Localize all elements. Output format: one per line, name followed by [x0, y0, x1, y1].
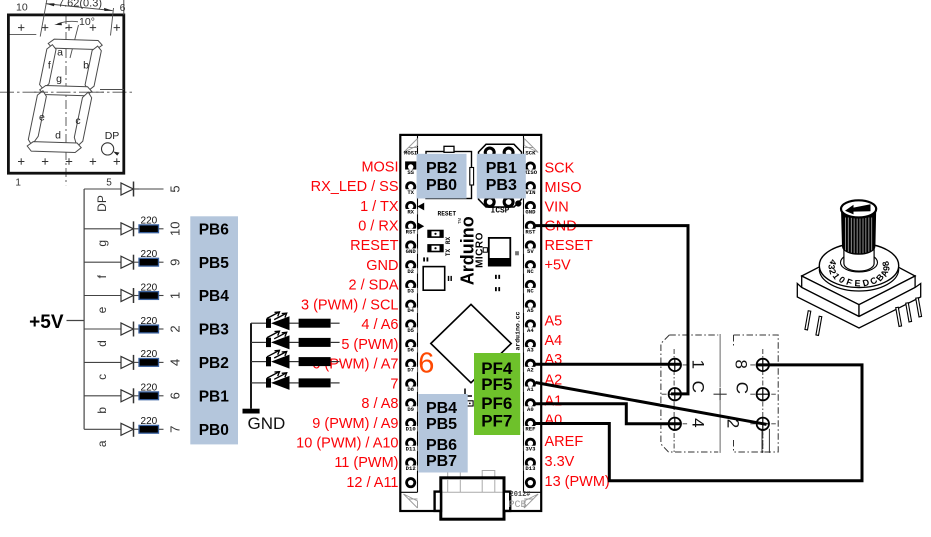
- svg-text:PB6: PB6: [199, 221, 230, 238]
- svg-text:GND: GND: [406, 248, 417, 255]
- svg-text:3.3V: 3.3V: [545, 454, 575, 470]
- svg-text:7: 7: [390, 376, 398, 392]
- svg-text:+5V: +5V: [545, 258, 572, 274]
- svg-text:220: 220: [141, 349, 158, 360]
- svg-text:PB1: PB1: [486, 160, 517, 177]
- svg-text:RESET: RESET: [350, 238, 398, 254]
- svg-text:D13: D13: [525, 465, 536, 472]
- svg-text:PF5: PF5: [481, 375, 512, 394]
- svg-text:PB0: PB0: [199, 422, 229, 439]
- svg-text:PCB: PCB: [509, 500, 527, 511]
- svg-text:DP: DP: [95, 195, 109, 212]
- svg-text:7: 7: [168, 426, 183, 433]
- svg-text:PF6: PF6: [481, 394, 512, 413]
- svg-text:RX_LED / SS: RX_LED / SS: [311, 179, 399, 195]
- svg-text:PB5: PB5: [199, 255, 230, 272]
- svg-text:D3: D3: [407, 288, 414, 295]
- svg-text:10 (PWM) / A10: 10 (PWM) / A10: [296, 436, 398, 452]
- svg-text:3V3: 3V3: [525, 445, 536, 452]
- svg-text:arduino.cc: arduino.cc: [515, 311, 522, 350]
- svg-text:a: a: [95, 440, 109, 447]
- svg-text:8: 8: [732, 359, 751, 368]
- svg-text:7.62(0.3): 7.62(0.3): [58, 0, 102, 9]
- svg-text:ICSP: ICSP: [491, 208, 510, 216]
- svg-text:220: 220: [141, 282, 158, 293]
- svg-text:b: b: [95, 407, 109, 414]
- svg-text:e: e: [95, 306, 109, 313]
- svg-text:4 / A6: 4 / A6: [361, 317, 398, 333]
- svg-text:1 / TX: 1 / TX: [360, 199, 399, 215]
- svg-text:6: 6: [120, 2, 126, 14]
- svg-text:C: C: [689, 381, 708, 393]
- svg-text:GND: GND: [525, 209, 536, 216]
- svg-text:220: 220: [141, 216, 158, 227]
- svg-text:5V: 5V: [527, 248, 534, 255]
- svg-text:1: 1: [15, 178, 21, 189]
- svg-text:c: c: [75, 115, 80, 127]
- svg-text:5: 5: [168, 185, 183, 192]
- svg-text:VIN: VIN: [545, 200, 569, 216]
- svg-text:PB5: PB5: [426, 416, 457, 433]
- svg-text:PB1: PB1: [199, 388, 230, 405]
- svg-text:VIN: VIN: [525, 189, 535, 196]
- svg-text:MISO: MISO: [545, 180, 582, 196]
- svg-text:220: 220: [141, 316, 158, 327]
- svg-text:D12: D12: [406, 465, 417, 472]
- svg-text:f: f: [48, 59, 51, 71]
- svg-text:A1: A1: [527, 386, 534, 393]
- svg-text:SS: SS: [407, 169, 414, 176]
- svg-text:b: b: [83, 60, 89, 72]
- svg-text:PB4: PB4: [426, 400, 457, 417]
- svg-text:A0: A0: [545, 412, 563, 428]
- svg-text:RST: RST: [525, 228, 536, 235]
- svg-text:2012#: 2012#: [510, 491, 531, 499]
- svg-text:A3: A3: [527, 347, 534, 354]
- svg-text:NC: NC: [527, 288, 534, 295]
- svg-text:1: 1: [689, 360, 708, 369]
- svg-text:0 / RX: 0 / RX: [358, 219, 399, 235]
- svg-text:6: 6: [418, 347, 434, 379]
- svg-text:PF7: PF7: [481, 412, 512, 431]
- svg-text:10: 10: [16, 2, 28, 14]
- svg-text:MICRO: MICRO: [474, 232, 485, 268]
- svg-text:5 (PWM): 5 (PWM): [341, 337, 398, 353]
- svg-text:2: 2: [168, 325, 183, 332]
- svg-text:D5: D5: [407, 327, 414, 334]
- svg-text:A1: A1: [545, 394, 563, 410]
- svg-text:PB3: PB3: [199, 322, 230, 339]
- svg-text:6: 6: [168, 392, 183, 399]
- svg-text:+5V: +5V: [29, 312, 64, 333]
- svg-text:RX: RX: [445, 237, 452, 245]
- svg-text:d: d: [55, 130, 61, 142]
- svg-text:E: E: [854, 278, 861, 288]
- svg-text:A2: A2: [527, 366, 534, 373]
- svg-text:DP: DP: [105, 130, 120, 142]
- svg-text:RST: RST: [406, 228, 417, 235]
- svg-text:RESET: RESET: [438, 211, 457, 218]
- svg-text:AREF: AREF: [545, 434, 584, 450]
- svg-text:D9: D9: [407, 406, 414, 413]
- svg-text:11 (PWM): 11 (PWM): [334, 455, 398, 471]
- svg-text:SCK: SCK: [545, 160, 575, 176]
- svg-text:e: e: [39, 112, 45, 124]
- svg-text:MOSI: MOSI: [361, 159, 398, 175]
- svg-text:NC: NC: [527, 268, 534, 275]
- svg-text:A5: A5: [545, 313, 563, 329]
- svg-text:PB6: PB6: [426, 437, 457, 454]
- svg-text:D10: D10: [406, 426, 417, 433]
- svg-text:12 / A11: 12 / A11: [346, 475, 398, 491]
- svg-text:4: 4: [689, 418, 708, 427]
- svg-text:8 / A8: 8 / A8: [361, 396, 398, 412]
- svg-text:D6: D6: [407, 347, 414, 354]
- svg-text:GND: GND: [366, 258, 398, 274]
- svg-text:2 / SDA: 2 / SDA: [349, 278, 399, 294]
- svg-text:PB3: PB3: [486, 177, 517, 194]
- svg-text:c: c: [95, 374, 109, 380]
- svg-text:g: g: [56, 73, 62, 85]
- svg-text:C: C: [733, 382, 752, 394]
- svg-text:PB2: PB2: [426, 160, 457, 177]
- svg-text:5: 5: [106, 178, 112, 189]
- svg-text:PB7: PB7: [426, 453, 457, 470]
- svg-text:MOSI: MOSI: [404, 149, 417, 156]
- svg-text:SCK: SCK: [525, 149, 536, 156]
- svg-text:220: 220: [141, 383, 158, 394]
- svg-text:A5: A5: [527, 307, 534, 314]
- svg-text:A4: A4: [527, 327, 534, 334]
- svg-text:9: 9: [168, 259, 183, 266]
- svg-text:REF: REF: [525, 426, 536, 433]
- svg-text:13 (PWM): 13 (PWM): [545, 474, 610, 490]
- svg-text:TX: TX: [445, 249, 452, 257]
- svg-text:D8: D8: [407, 386, 414, 393]
- svg-text:d: d: [95, 340, 109, 347]
- svg-text:A3: A3: [545, 352, 563, 368]
- svg-text:9 (PWM) / A9: 9 (PWM) / A9: [312, 416, 398, 432]
- svg-text:A4: A4: [545, 333, 563, 349]
- svg-text:D4: D4: [407, 307, 414, 314]
- svg-text:PB2: PB2: [199, 355, 229, 372]
- svg-text:10: 10: [168, 222, 183, 236]
- svg-text:PB0: PB0: [426, 177, 457, 194]
- svg-text:A0: A0: [527, 406, 534, 413]
- svg-text:a: a: [57, 47, 63, 59]
- svg-text:GND: GND: [248, 414, 286, 433]
- svg-text:D2: D2: [407, 268, 414, 275]
- svg-text:D7: D7: [407, 366, 414, 373]
- svg-text:4: 4: [168, 359, 183, 366]
- svg-text:PB4: PB4: [199, 288, 230, 305]
- svg-text:D11: D11: [406, 445, 417, 452]
- svg-text:220: 220: [141, 416, 158, 427]
- svg-text:TX: TX: [407, 189, 414, 196]
- svg-text:3 (PWM) / SCL: 3 (PWM) / SCL: [301, 297, 398, 313]
- svg-text:1: 1: [168, 292, 183, 299]
- svg-text:220: 220: [141, 249, 158, 260]
- svg-text:RX: RX: [407, 209, 414, 216]
- svg-text:g: g: [95, 240, 109, 247]
- svg-text:RESET: RESET: [545, 238, 593, 254]
